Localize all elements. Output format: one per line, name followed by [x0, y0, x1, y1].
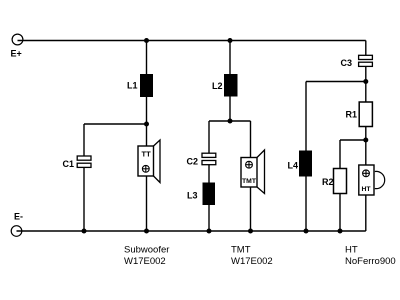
svg-text:E+: E+ — [11, 49, 22, 59]
svg-text:R1: R1 — [346, 110, 358, 120]
node junction C3/R1/L4 — [363, 79, 368, 84]
wire C3 to junction — [365, 67, 367, 82]
wire L1 to junction — [146, 97, 148, 124]
speaker TT (subwoofer) — [138, 140, 160, 183]
speaker TMT (midrange) — [241, 150, 265, 194]
node junction top rail / L1 — [144, 38, 149, 43]
inductor L4 — [288, 151, 313, 177]
speaker HT (tweeter) — [359, 165, 385, 195]
node junction C1 / bottom rail — [82, 229, 87, 234]
svg-text:C1: C1 — [63, 159, 75, 169]
label Subwoofer W17E002 — [124, 245, 169, 268]
wire L3 to bottom rail — [208, 205, 210, 231]
svg-text:W17E002: W17E002 — [231, 256, 273, 267]
svg-text:L1: L1 — [127, 81, 138, 91]
wire R2 column down — [339, 140, 341, 169]
svg-text:E-: E- — [14, 212, 23, 222]
wire L4 to bottom rail — [305, 177, 307, 232]
wire L2 from top rail — [229, 41, 231, 75]
wire top rail E+ to right corner — [18, 40, 366, 42]
svg-text:L2: L2 — [212, 81, 223, 91]
wire junction to R1 — [365, 82, 367, 103]
svg-text:TMT: TMT — [242, 178, 257, 185]
wire top rail down to C3 — [365, 41, 367, 56]
node junction R2 / bottom rail — [338, 229, 343, 234]
node junction R1/R2/HT — [363, 138, 368, 143]
node junction top rail / L2 — [228, 38, 233, 43]
label HT NoFerro900 — [345, 245, 396, 268]
terminal E- — [11, 212, 23, 237]
svg-text:L3: L3 — [187, 191, 198, 201]
wire R1 to junction — [365, 127, 367, 141]
inductor L1 — [127, 74, 153, 97]
wire junction to HT speaker — [365, 140, 367, 165]
node junction TMT / bottom rail — [248, 229, 253, 234]
svg-text:Subwoofer: Subwoofer — [124, 245, 169, 256]
wire C1 to bottom rail — [83, 168, 85, 231]
svg-text:HT: HT — [362, 186, 372, 193]
node junction L1/C1/TT — [144, 122, 149, 127]
capacitor C1 — [63, 156, 92, 169]
svg-text:TT: TT — [142, 150, 152, 159]
wire C2 column down — [208, 121, 210, 153]
svg-text:W17E002: W17E002 — [124, 256, 166, 267]
wire branch left to L4 column — [306, 81, 366, 83]
node junction L2/C2/TMT — [228, 119, 233, 124]
wire TMT to bottom rail — [250, 187, 252, 231]
inductor L2 — [212, 74, 238, 97]
resistor R2 — [322, 169, 347, 194]
svg-text:R2: R2 — [322, 177, 334, 187]
wire junction to TT speaker — [146, 124, 148, 146]
svg-text:TMT: TMT — [231, 245, 251, 256]
svg-text:L4: L4 — [288, 161, 299, 171]
wire L2 to junction — [229, 97, 231, 122]
wire TMT column down — [250, 121, 252, 158]
label TMT W17E002 — [231, 245, 273, 268]
capacitor C3 — [341, 55, 373, 68]
wire C1 column down — [83, 124, 85, 156]
node junction L4 / bottom rail — [304, 229, 309, 234]
capacitor C2 — [187, 153, 216, 166]
svg-text:C3: C3 — [341, 58, 353, 68]
node junction TT / bottom rail — [144, 229, 149, 234]
wire R2 to bottom rail — [339, 194, 341, 232]
wire TT to bottom rail — [146, 176, 148, 231]
svg-text:HT: HT — [345, 245, 358, 256]
wire branch horizontal C2 to TMT — [209, 120, 251, 122]
wire L1 from top rail — [146, 41, 148, 75]
terminal E+ — [11, 34, 23, 58]
wire C2 to L3 — [208, 165, 210, 183]
wire branch left to C1 column — [84, 123, 147, 125]
wire bottom rail — [17, 230, 366, 232]
wire HT to bottom rail — [365, 195, 367, 231]
svg-text:C2: C2 — [187, 157, 199, 167]
inductor L3 — [187, 183, 215, 206]
resistor R1 — [346, 102, 373, 127]
wire L4 column down — [305, 82, 307, 151]
wire branch left to R2 column — [340, 139, 366, 141]
svg-text:NoFerro900: NoFerro900 — [345, 256, 396, 267]
node junction L3 / bottom rail — [207, 229, 212, 234]
